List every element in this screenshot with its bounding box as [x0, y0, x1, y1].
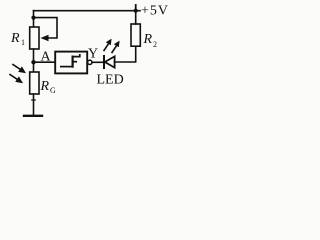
label +5V — [141, 4, 169, 19]
label LED — [97, 73, 124, 88]
inversion bubble on U1 output — [88, 60, 92, 64]
label R2 — [143, 32, 158, 49]
LED cathode bar — [103, 56, 105, 68]
label R1 — [10, 31, 25, 47]
label RG — [40, 79, 57, 95]
wire left drop from rail to R1 top — [33, 11, 35, 27]
light arrow 1 onto RG — [13, 65, 26, 74]
ground — [24, 115, 42, 117]
svg-text:R: R — [40, 79, 50, 94]
+5V terminal tick — [135, 5, 137, 11]
node A junction dot — [31, 60, 35, 64]
svg-text:R: R — [10, 31, 20, 46]
node +5V junction dot — [134, 9, 138, 13]
light arrow 2 onto RG — [10, 75, 23, 84]
svg-text:R: R — [143, 32, 153, 47]
LED emission arrow 2 — [112, 41, 120, 53]
wire node A down to RG top — [33, 62, 35, 72]
LED emission arrow 1 — [104, 39, 112, 51]
wire tick artifact below RG — [32, 99, 35, 101]
label Y — [88, 47, 98, 62]
wire +5V top rail — [34, 10, 141, 12]
wire R2 top to rail — [135, 11, 137, 24]
label A — [41, 50, 52, 65]
svg-text:G: G — [50, 86, 56, 95]
resistor RG body (photoresistor) — [30, 72, 39, 94]
resistor R2 body — [131, 24, 140, 46]
op-amp U1 Schmitt trigger inverter box — [55, 52, 87, 74]
resistor R1 body — [30, 27, 39, 49]
hysteresis symbol inside U1 — [61, 55, 80, 67]
LED triangle (anode, pointing left) — [105, 56, 115, 67]
wire node A to Schmitt input — [34, 61, 56, 63]
wire U1 output to LED cathode — [92, 61, 104, 63]
potentiometer R1 wiper arrowhead — [41, 35, 49, 41]
svg-text:LED: LED — [97, 73, 124, 88]
svg-text:+5V: +5V — [141, 4, 169, 19]
svg-text:Y: Y — [88, 47, 98, 62]
wire R1 bottom to node A — [33, 49, 35, 62]
svg-text:1: 1 — [21, 38, 25, 47]
node wiper tie junction — [31, 16, 35, 20]
wire wiper loop of R1 — [34, 18, 58, 38]
svg-text:2: 2 — [153, 40, 157, 49]
wire RG bottom to ground — [33, 94, 35, 116]
wire LED anode to R2 bottom — [115, 46, 136, 62]
